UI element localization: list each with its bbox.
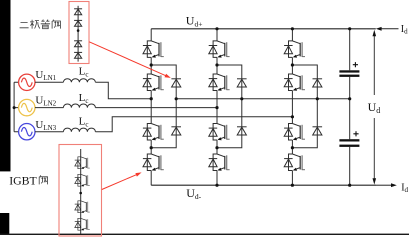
node leg3 ac [291,115,294,118]
IGBT valve callout box [59,145,102,237]
wire source3 to inductor3 [35,131,63,133]
wire source1 to inductor1 [35,81,63,83]
IGBT module V34 [284,154,305,171]
source ULN1 [19,74,35,90]
node cap bottom [348,184,351,187]
node wye mid [13,106,16,109]
source ULN2 [19,99,35,115]
wire phase C to leg3 midpoint [95,117,292,132]
node leg3 upper [291,63,294,66]
Ud measurement arrow [373,33,375,182]
clamp diode D12 [171,127,181,135]
DC negative rail Ud- [151,184,376,186]
diode valve callout box [69,2,89,64]
wire clamp branch leg3 [292,65,317,148]
node leg3 bottom rail [291,184,294,187]
plus sign C2 [353,131,358,136]
current arrow Id top [381,28,399,30]
node leg2 upper [215,63,218,66]
wire phase A to leg1 midpoint [95,82,151,98]
diode valve D d [74,52,82,58]
inductor Lc phase2 [63,104,95,108]
wire capacitor branch [349,29,351,185]
node leg2 top rail [215,27,218,30]
callout arrow to igbt module [102,174,137,189]
IGBT module V33 [284,124,305,141]
left black bar lower segment [0,213,9,235]
clamp diode D32 [313,127,323,135]
IGBT module V23 [209,124,230,141]
wire igbt valve string [80,149,82,234]
IGBT module V31 [284,41,305,58]
inductor Lc phase3 [63,128,95,132]
clamp diode D22 [237,127,247,135]
clamp diode D31 [313,79,323,87]
capacitor C2 [339,139,359,141]
plus sign C1 [353,62,358,67]
igbt valve module c [75,201,90,213]
svg-text:IGBT: IGBT [9,173,37,187]
IGBT module V32 [284,74,305,91]
wire diode valve string [77,6,79,62]
bottom divider line [0,234,409,235]
wire clamp branch leg1 [151,65,176,148]
IGBT module V13 [143,124,164,141]
wire leg2 verticals [216,29,218,185]
node cap neutral [348,97,351,100]
IGBT module V11 [143,41,164,58]
node leg1 upper [150,63,153,66]
capacitor C1 [339,70,359,72]
wire source2 to inductor2 [35,107,63,109]
clamp diode D21 [237,79,247,87]
node clamp3 neutral [316,97,319,100]
wire leg1 verticals [150,29,152,185]
igbt valve module a [75,157,90,169]
label 二极管阀 (diode valve) [20,20,61,29]
dot ellipsis diode valve [77,29,80,32]
igbt valve module d [75,218,90,230]
diode valve D b [74,20,82,26]
node clamp1 neutral [175,97,178,100]
IGBT module V12 [143,74,164,91]
node clamp2 neutral [240,97,243,100]
node leg3 lower [291,146,294,149]
node leg2 bottom rail [215,184,218,187]
neutral point bus [176,98,350,100]
node leg1 ac [150,97,153,100]
igbt valve module b [75,174,90,186]
diode valve D c [74,41,82,47]
IGBT module V22 [209,74,230,91]
left black bar upper segment [0,0,11,171]
source ULN3 [19,124,35,140]
wye bus wire [14,82,19,131]
DC positive rail Ud+ [151,28,376,30]
clamp diode D11 [171,79,181,87]
node cap top [348,27,351,30]
node leg2 ac [215,106,218,109]
inductor Lc phase1 [63,79,95,83]
wire phase B to leg2 midpoint [95,107,217,109]
IGBT module V24 [209,154,230,171]
wire clamp branch leg2 [217,65,242,148]
current arrow Id bottom [376,184,391,186]
dot ellipsis igbt valve [79,192,82,195]
diode valve D a [74,9,82,15]
node leg3 top rail [291,27,294,30]
node leg1 lower [150,146,153,149]
wire leg3 verticals [291,29,293,185]
callout arrow to clamp diode [89,42,166,76]
node leg2 lower [215,146,218,149]
IGBT module V14 [143,154,164,171]
IGBT module V21 [209,41,230,58]
